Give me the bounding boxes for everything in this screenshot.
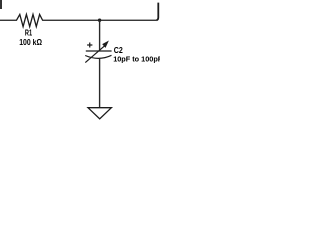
capacitor C2 plus-sign polarity mark: [87, 43, 92, 48]
svg-text:10pF to 100pF: 10pF to 100pF: [113, 55, 160, 64]
capacitor C2 variable arrow head: [102, 41, 109, 48]
wire (main horizontal) and resistor R1 zigzag: [0, 14, 156, 26]
svg-text:R1: R1: [25, 28, 32, 38]
capacitor C2 curved bottom plate: [85, 55, 111, 58]
wire (right bend up, cropped): [156, 3, 158, 21]
node junction dot: [98, 19, 101, 22]
capacitor C2 variable arrow shaft: [85, 46, 104, 63]
svg-text:C2: C2: [114, 45, 123, 55]
wire (cropped vertical stub, top-left): [0, 0, 2, 9]
svg-text:100 kΩ: 100 kΩ: [19, 37, 42, 47]
wire (vertical from C2 to ground): [99, 58, 101, 107]
wire (vertical from junction to C2): [99, 20, 101, 51]
capacitor C2 top plate: [86, 50, 112, 52]
ground symbol (open triangle): [88, 108, 111, 119]
